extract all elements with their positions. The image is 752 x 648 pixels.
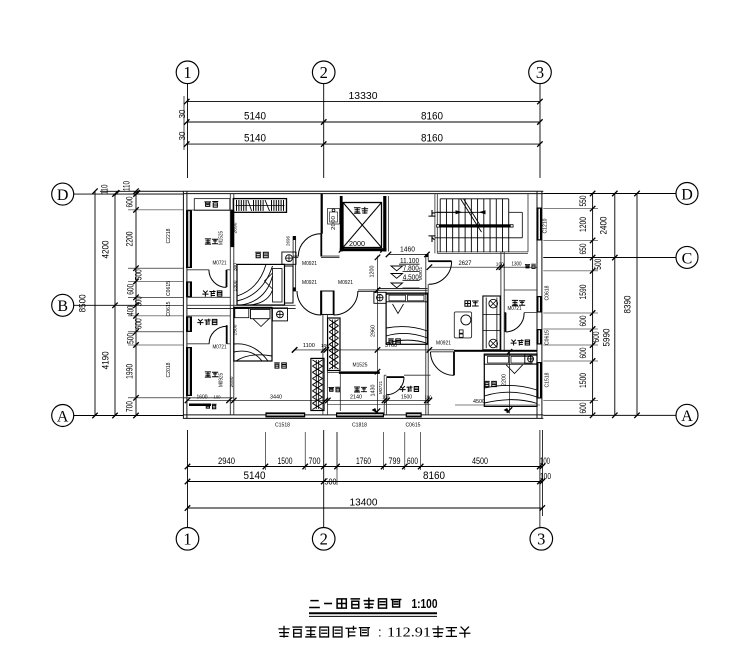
svg-text:8160: 8160 (421, 133, 443, 145)
svg-text:C0615: C0615 (166, 281, 172, 296)
svg-text:700: 700 (125, 401, 135, 412)
svg-text:8160: 8160 (421, 110, 443, 122)
svg-text:600: 600 (578, 348, 588, 359)
stair labels (429, 211, 435, 217)
svg-text:A: A (681, 408, 693, 425)
svg-text:M0721: M0721 (508, 306, 522, 312)
svg-text:C1210: C1210 (543, 218, 549, 233)
svg-text:1990: 1990 (125, 364, 135, 379)
window C1518 right (536, 362, 542, 399)
level bottom triangle (391, 283, 403, 288)
label living room (465, 301, 471, 307)
left dim chains (94, 191, 96, 415)
hall south wall (377, 289, 379, 292)
bedroom4 north wall (454, 350, 537, 352)
door M0721 right bath (505, 313, 507, 332)
svg-text:2: 2 (320, 530, 328, 549)
svg-text::: : (378, 625, 382, 640)
svg-text:600: 600 (407, 456, 418, 466)
svg-text:1200: 1200 (578, 217, 588, 232)
door M0921 corridor left (320, 291, 322, 315)
bed bedroom3 (386, 293, 427, 344)
unit3 bath north wall with gap (384, 374, 386, 376)
interior wall left strip vertical (229, 194, 231, 415)
window C1210 right (536, 208, 542, 241)
balcony inner floor line (327, 404, 430, 406)
level 4.500 (391, 274, 403, 279)
svg-text:300: 300 (233, 263, 238, 271)
svg-text:2200: 2200 (125, 232, 135, 247)
bed bedroom2 (234, 307, 272, 361)
svg-text:2960: 2960 (371, 325, 377, 337)
internal dim y349 line (295, 349, 431, 351)
svg-text:1200: 1200 (370, 266, 376, 278)
window C2218 left (186, 210, 192, 268)
grid axis circles right (676, 183, 698, 205)
unit3 bath west wall (383, 375, 385, 415)
svg-text:M0721: M0721 (213, 344, 227, 350)
svg-text:1600: 1600 (197, 394, 208, 400)
svg-text:8390: 8390 (623, 296, 634, 314)
door M0721 bath2 left (226, 325, 228, 344)
window C0615 left lower (186, 316, 192, 332)
bedroom3 east wall (hall-living divide) (425, 254, 427, 415)
svg-text:600: 600 (126, 284, 136, 295)
svg-text:2140: 2140 (350, 394, 362, 400)
internal dim 2627/1300 line (429, 266, 537, 268)
door M0921 corridor right (333, 291, 335, 315)
svg-text:2940: 2940 (218, 456, 235, 466)
corridor north wall (293, 255, 298, 257)
B axis wall double (187, 304, 296, 306)
svg-text:1460: 1460 (400, 245, 415, 254)
svg-text:100: 100 (321, 343, 329, 349)
svg-text:M1525: M1525 (219, 231, 225, 245)
svg-text:30: 30 (177, 131, 187, 140)
kitchen counter living (454, 312, 471, 338)
svg-text:2696: 2696 (286, 236, 291, 246)
svg-text:110: 110 (100, 185, 110, 195)
svg-text:1430: 1430 (371, 385, 377, 397)
top dimension row 5140/8160 (b) (187, 143, 540, 145)
door M0721 bath1 left (226, 270, 228, 287)
label bath1 (203, 291, 208, 296)
left strip wall bath1 top with door gap (187, 269, 209, 271)
svg-text:2627: 2627 (459, 261, 473, 267)
wall between unit2 and unit3 (322, 315, 324, 373)
sliding door M1525 dark segment (231, 210, 235, 248)
left notch wall (183, 397, 233, 399)
stairs treads (439, 199, 441, 252)
duct fixture left of elevator (328, 209, 340, 225)
svg-text:C2018: C2018 (166, 362, 172, 377)
svg-text:C0618: C0618 (545, 285, 551, 300)
M1525 slider dark bar (339, 371, 380, 374)
svg-text:1590: 1590 (578, 285, 588, 300)
internal dim 4500 right (455, 404, 540, 406)
internal vertical dim x509 bedroom4 (509, 352, 511, 414)
elevator labels (354, 208, 360, 214)
bedroom1 east wall lower (corridor west) (292, 236, 294, 291)
svg-text:500: 500 (134, 269, 144, 280)
svg-text:100: 100 (496, 261, 504, 267)
svg-text:2200: 2200 (502, 374, 508, 386)
svg-text:799: 799 (389, 456, 401, 466)
svg-text:1500: 1500 (233, 324, 239, 335)
window C0615 right (536, 329, 542, 345)
svg-text:100: 100 (540, 456, 550, 466)
left strip partition kitchen box bottom (187, 209, 230, 211)
svg-text:1500: 1500 (401, 394, 412, 400)
grid axis circles top (176, 61, 199, 84)
svg-text:4500: 4500 (473, 399, 485, 405)
wardrobe bedroom2 (311, 358, 324, 410)
svg-text:3440: 3440 (270, 394, 282, 400)
svg-text:550: 550 (578, 196, 588, 207)
svg-text:600: 600 (134, 318, 144, 329)
svg-text:C1818: C1818 (352, 423, 367, 429)
svg-text:C0615: C0615 (406, 423, 421, 429)
left strip wall bath1 bottom (187, 296, 230, 298)
svg-text:M0721: M0721 (378, 381, 384, 394)
stairs inner rails (435, 211, 482, 213)
svg-text:2000: 2000 (331, 216, 337, 230)
svg-text:110: 110 (122, 181, 132, 191)
bed2 lamp (272, 308, 287, 321)
bed3 north wall (378, 288, 428, 290)
svg-text:13330: 13330 (349, 90, 378, 102)
svg-text:M0921: M0921 (436, 341, 451, 347)
svg-text:112.91: 112.91 (387, 625, 431, 640)
svg-text:2690: 2690 (233, 222, 239, 233)
svg-text:C0615: C0615 (545, 330, 551, 345)
bed1 lamp (282, 252, 296, 264)
right strip kitchen/balcony divide (504, 289, 537, 291)
svg-text:2000: 2000 (349, 239, 365, 248)
bottom extension lines (264, 432, 266, 470)
label balcony top-left (205, 239, 210, 244)
window C1518 bottom (265, 412, 305, 417)
label balcony right (512, 300, 517, 305)
svg-text:600: 600 (578, 316, 588, 327)
label room3 (389, 339, 394, 344)
label kitchen notch (206, 405, 210, 409)
bedroom1 east wall upper (321, 194, 323, 234)
top dimension row 13330 (187, 101, 540, 103)
internal dim bottom y400 (188, 399, 430, 401)
elevator lobby strip walls (321, 255, 340, 257)
svg-text:600: 600 (578, 403, 588, 414)
svg-text:C1518: C1518 (275, 423, 290, 429)
right dim chains (592, 194, 594, 416)
grid axis circles bottom (176, 528, 199, 551)
svg-text:500: 500 (593, 259, 603, 270)
svg-text:500: 500 (325, 478, 337, 487)
svg-text:300: 300 (134, 296, 144, 306)
internal vertical dim x377 (377, 256, 379, 414)
kitchen counter box top-left (194, 199, 230, 211)
bed bedroom4 (484, 354, 537, 406)
wardrobe center (unit3) (328, 318, 340, 371)
svg-text:A: A (57, 408, 69, 425)
svg-text:M0921: M0921 (418, 267, 424, 280)
living/right strip divide wall (500, 252, 502, 352)
svg-text:700: 700 (309, 456, 321, 466)
label room2 (275, 363, 280, 368)
svg-text:8160: 8160 (423, 470, 445, 482)
svg-text:5140: 5140 (244, 133, 266, 145)
svg-text:1: 1 (183, 530, 191, 549)
svg-text:100: 100 (214, 394, 221, 399)
svg-text:30: 30 (177, 109, 187, 118)
svg-text:M0925: M0925 (219, 373, 225, 387)
svg-text:B: B (57, 298, 68, 315)
svg-text:2400: 2400 (599, 217, 610, 235)
svg-text:5990: 5990 (602, 329, 613, 347)
svg-text:500: 500 (126, 333, 136, 344)
svg-text:100: 100 (382, 394, 389, 399)
window C2018 left (186, 347, 192, 396)
stairs down arrow (479, 210, 486, 214)
svg-text:8500: 8500 (78, 294, 89, 312)
svg-text:5140: 5140 (244, 470, 266, 482)
level 7.800 (391, 266, 403, 271)
label bath2 (198, 319, 203, 324)
top dimension row 5140/8160 (a) (187, 121, 540, 123)
svg-text:1100: 1100 (303, 343, 315, 349)
svg-text:400: 400 (126, 306, 136, 316)
stairwell east inner wall (527, 194, 529, 252)
title text 二-四层平面图 (310, 601, 319, 608)
axis lines (187, 84, 189, 178)
svg-text:M1525: M1525 (353, 362, 368, 368)
svg-text:C: C (682, 250, 693, 267)
bed3 lamp (374, 292, 386, 303)
svg-text:100: 100 (425, 394, 432, 399)
svg-text:1: 1 (183, 63, 191, 82)
svg-text:650: 650 (578, 244, 588, 255)
stairs break line (461, 199, 479, 227)
window C0615 bottom (406, 412, 422, 417)
bottom dim row 3 (188, 507, 543, 509)
svg-text:3: 3 (536, 63, 544, 82)
bed4 lamp (525, 354, 537, 364)
outer wall top (183, 190, 543, 192)
bed bedroom2 nightstand (235, 308, 249, 317)
bottom dim row 2 (188, 481, 543, 483)
grid axis circles left (52, 183, 74, 205)
svg-text:C2218: C2218 (166, 228, 172, 243)
svg-text:3: 3 (537, 530, 545, 549)
elevator shaft walls (340, 196, 343, 252)
shaft column with fans (483, 296, 500, 350)
window C0615 left upper (186, 281, 192, 297)
svg-text:D: D (57, 187, 69, 204)
svg-text:C1518: C1518 (545, 372, 551, 387)
label balcony lower-left (205, 372, 210, 377)
tiny dim 1100/100 left of corridor (292, 347, 297, 352)
svg-text:1500: 1500 (578, 373, 588, 388)
svg-text:600: 600 (125, 197, 135, 208)
svg-text:D: D (681, 186, 693, 203)
svg-text:2: 2 (320, 63, 328, 82)
door M0921 living room (428, 260, 451, 262)
corridor south wall segs (358, 289, 378, 291)
left strip wall bath2 top (187, 315, 230, 317)
wardrobe bedroom1 top (233, 199, 286, 213)
stairwell west wall (434, 194, 436, 254)
title underline (309, 612, 437, 614)
stairwell south wall (437, 251, 528, 253)
left notch counter bar (189, 404, 211, 407)
door M0921 bedroom4 (453, 352, 455, 376)
stairs handrail bar (436, 224, 513, 227)
svg-text:4190: 4190 (101, 351, 112, 369)
svg-text:M0921: M0921 (302, 261, 317, 267)
right strip balcony/bath divide with door gap (504, 312, 506, 314)
bottom dim row 1 (188, 466, 543, 468)
outer wall bottom (183, 414, 543, 416)
bed bedroom1 (237, 264, 285, 305)
svg-text:1:100: 1:100 (412, 597, 438, 611)
svg-text:C0615: C0615 (166, 301, 172, 316)
door M0921 bedroom1 (320, 234, 322, 257)
svg-text:1300: 1300 (512, 261, 522, 267)
label bath right (511, 340, 516, 345)
area text 本层建筑面积为 (279, 626, 289, 637)
outer wall right (536, 191, 538, 418)
left strip wall bath2 bottom with door gap (187, 343, 210, 345)
svg-text:1300: 1300 (233, 280, 239, 291)
svg-text:4500: 4500 (472, 456, 488, 466)
label room1 (256, 252, 261, 258)
svg-text:2690: 2690 (229, 376, 235, 387)
svg-text:M0721: M0721 (213, 260, 227, 266)
outer wall left (182, 191, 184, 418)
label kitchen top-left (205, 202, 211, 207)
stairs up arrow (437, 211, 459, 213)
unit3 kitchen strip west wall (322, 373, 324, 415)
svg-text:5140: 5140 (244, 110, 266, 122)
svg-text:M0921: M0921 (338, 280, 353, 286)
window C1818 bottom (336, 412, 384, 417)
svg-text:M0921: M0921 (302, 280, 317, 286)
kitchen strip inner wall (339, 374, 341, 411)
svg-text:4200: 4200 (101, 241, 112, 259)
svg-text:1760: 1760 (356, 456, 371, 466)
svg-text:1500: 1500 (278, 456, 293, 466)
elevator car box with X (343, 203, 382, 248)
labels unit3 bottom strip (329, 387, 334, 391)
svg-text:13400: 13400 (350, 496, 378, 508)
dim 1460 hall (389, 253, 428, 255)
svg-text:100: 100 (540, 472, 551, 481)
window C0618 right (536, 296, 542, 313)
label room4 (485, 381, 490, 386)
corridor pier closet (321, 291, 334, 315)
door M0721 unit3 bath (386, 376, 404, 378)
svg-text:600: 600 (591, 332, 601, 343)
